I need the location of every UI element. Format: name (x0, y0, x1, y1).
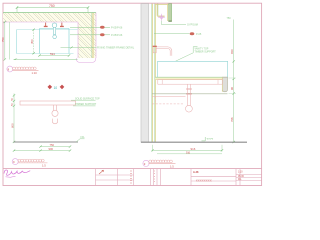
svg-text:XXXXXXXX: XXXXXXXX (196, 179, 212, 182)
svg-text:900: 900 (49, 147, 54, 151)
svg-text:TIMBER SUPPORT: TIMBER SUPPORT (75, 103, 97, 106)
svg-text:600: 600 (10, 123, 14, 128)
svg-text:xx: xx (130, 183, 132, 185)
svg-text:916: 916 (191, 147, 196, 151)
svg-text:750: 750 (50, 143, 55, 147)
svg-text:10: 10 (54, 86, 58, 90)
svg-text:P-05/P-06: P-05/P-06 (111, 26, 123, 29)
svg-text:P-05: P-05 (196, 33, 202, 36)
svg-text:x: x (154, 181, 155, 183)
svg-text:SOLID SURFACE TOP: SOLID SURFACE TOP (75, 98, 100, 101)
svg-text:P-05/P-06: P-05/P-06 (111, 34, 123, 37)
svg-text:750: 750 (49, 4, 55, 8)
svg-text:594: 594 (50, 52, 55, 56)
svg-text:TIMBER SUPPORT: TIMBER SUPPORT (195, 51, 217, 54)
svg-text:90: 90 (230, 87, 234, 90)
svg-text:450: 450 (230, 49, 234, 54)
svg-text:05.06: 05.06 (238, 176, 244, 178)
svg-text:FIXING TIMBER FRAME DETAIL: FIXING TIMBER FRAME DETAIL (97, 46, 135, 49)
svg-text:916: 916 (186, 151, 191, 154)
svg-text:1:10: 1:10 (32, 71, 38, 75)
svg-text:FFL: FFL (81, 136, 86, 139)
svg-text:706: 706 (230, 117, 234, 122)
svg-text:450: 450 (30, 39, 34, 44)
svg-text:????: ???? (207, 137, 214, 141)
svg-text:750: 750 (227, 17, 232, 20)
svg-text:1:5: 1:5 (170, 164, 174, 168)
svg-text:1:5: 1:5 (42, 163, 46, 167)
svg-text:1:10: 1:10 (238, 171, 243, 173)
svg-text:A-28: A-28 (193, 171, 199, 174)
svg-text:750: 750 (1, 37, 5, 42)
svg-text:GYPSUM: GYPSUM (187, 24, 198, 27)
